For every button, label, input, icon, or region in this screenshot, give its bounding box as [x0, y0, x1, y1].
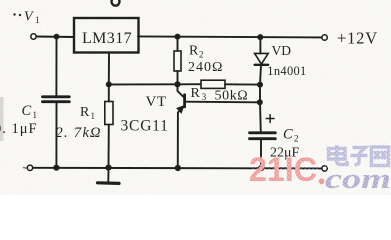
node: VT base on diode rail [257, 99, 263, 105]
base lead to right rail [185, 101, 260, 104]
bottom rail [33, 167, 322, 170]
wire: input terminal to LM317 IN [36, 36, 74, 39]
watermark 21IC. (salmon) [249, 151, 324, 189]
resistor R1 2.7kohm [105, 102, 113, 125]
wire: diode rail down to C2 [259, 85, 262, 133]
hanzi dian [329, 145, 348, 165]
hanzi wang [372, 147, 389, 166]
transistor Q1 VT (PNP) [177, 84, 259, 167]
node: C1 on bottom rail [53, 165, 59, 171]
resistor R3 50kohm (horizontal) [180, 83, 201, 85]
capacitor C1 0.1uF [55, 39, 57, 97]
label C1 [0, 103, 38, 137]
right bottom terminal [322, 166, 327, 171]
node: ADJ junction [106, 81, 112, 87]
node: ground / R1 on bottom rail [105, 165, 111, 171]
emitter lead with arrow [178, 106, 184, 167]
label R3 50kohm [191, 86, 249, 104]
left edge scan smudge [0, 97, 4, 141]
node: C1 tap on input rail [54, 34, 60, 40]
wire: LM317 OUT to +12V output rail [138, 36, 322, 37]
node: VD anode on output rail [257, 34, 263, 40]
ground [107, 168, 109, 182]
resistor R2 240ohm [177, 39, 179, 51]
input terminal [31, 34, 36, 39]
node: VT emitter on bottom rail [175, 165, 181, 171]
node: R2 top [175, 34, 181, 40]
collector lead from R2-bottom node [178, 84, 184, 97]
wire: LM317 ADJ pin down [108, 53, 110, 85]
watermark speckle texture [250, 143, 391, 189]
capacitor C2 22uF (electrolytic, + top) [250, 131, 276, 134]
scan tick near left terminal [24, 167, 28, 170]
label VD [267, 43, 306, 78]
node: C2 on bottom rail [258, 165, 264, 171]
label V1 [13, 10, 39, 26]
base bar [183, 95, 186, 107]
label R2 [188, 44, 223, 75]
watermark dianziwang (lavender) [329, 145, 389, 166]
label C2 [270, 127, 300, 161]
left bottom terminal [27, 165, 32, 170]
label VT [121, 94, 169, 135]
node: R3 right on diode rail [257, 82, 263, 88]
hanzi zi [351, 148, 368, 165]
plus sign of C2 [266, 115, 274, 123]
output terminal [322, 35, 327, 40]
label R1 [56, 105, 101, 141]
node: R2 bottom / VT collector junction [174, 81, 180, 87]
regulator U1 LM317 [74, 18, 139, 53]
diode VD 1n4001 (vertical, pointing down) [259, 40, 261, 54]
figure caption fragment (top, cut off) [112, 0, 120, 6]
wire: ADJ junction to R2 bottom [109, 83, 178, 85]
